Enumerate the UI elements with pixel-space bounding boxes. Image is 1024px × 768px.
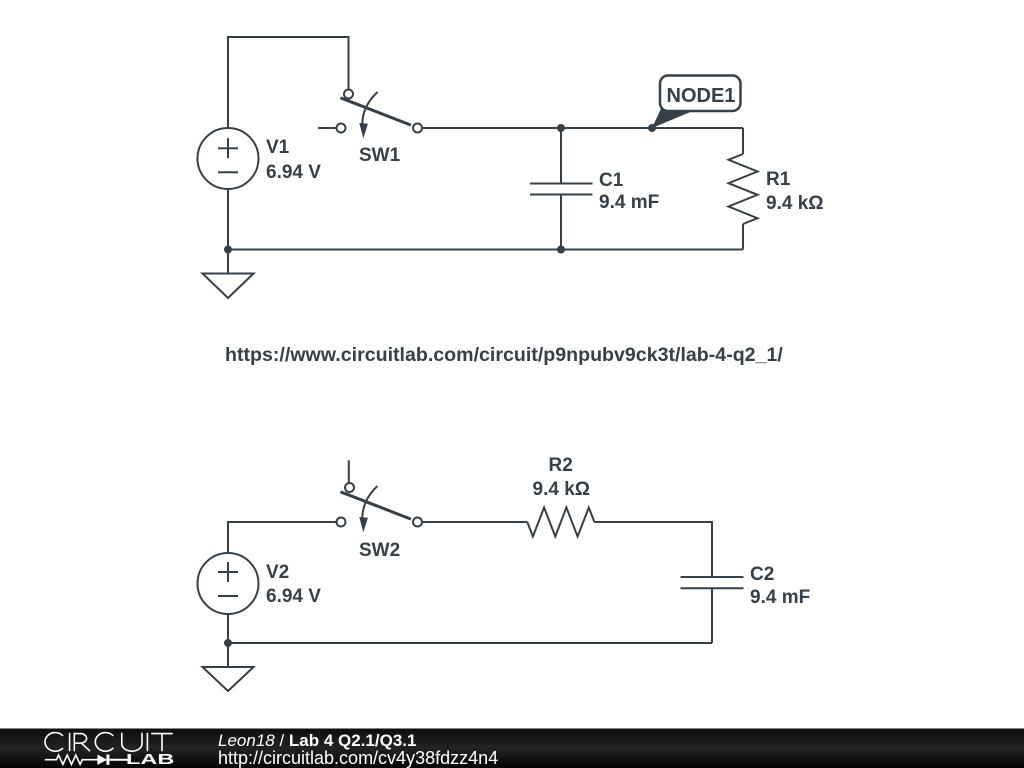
wire R2 to C2 <box>594 522 712 577</box>
node dot NODE1 <box>648 124 656 132</box>
label C2 <box>750 565 774 584</box>
label C1 <box>599 171 623 190</box>
NODE1 flag <box>652 76 741 129</box>
bottom rail bottom circuit <box>228 642 712 644</box>
wire SW1 to R1 top rail <box>422 127 743 129</box>
label V1 <box>266 138 289 157</box>
ground stub bottom <box>227 643 229 667</box>
wire SW2 to R2 <box>422 521 527 523</box>
value V1 6.94 V <box>266 163 321 182</box>
wire V1 bottom <box>227 189 229 250</box>
resistor R2 <box>527 508 594 537</box>
logo resistor-diode glyph <box>45 755 128 765</box>
ground stub top <box>227 250 229 274</box>
wire V2 bottom <box>227 614 229 643</box>
node dot C1 top <box>557 124 565 132</box>
node dot C1 bottom <box>557 246 565 254</box>
label R2 <box>549 456 573 475</box>
wire V1 top to SW1 <box>228 37 349 128</box>
value R2 9.4 kOhm <box>533 480 591 499</box>
value C2 9.4 mF <box>750 588 810 607</box>
ground symbol top <box>203 274 254 299</box>
junction dot V2 bottom <box>224 639 232 647</box>
switch SW2 <box>337 460 423 532</box>
node dot V1 bottom <box>224 246 232 254</box>
URL caption <box>225 346 783 366</box>
label V2 <box>266 563 289 582</box>
footer credit line <box>218 732 416 749</box>
value C1 9.4 mF <box>599 193 659 212</box>
voltage source V1 <box>198 128 259 189</box>
label SW1 <box>359 146 400 165</box>
label R1 <box>766 170 790 189</box>
footer url line <box>218 749 498 767</box>
value R1 9.4 kOhm <box>766 194 824 213</box>
capacitor C1 <box>530 128 593 250</box>
switch SW1 <box>318 90 422 139</box>
voltage source V2 <box>198 553 259 614</box>
label SW2 <box>359 541 400 560</box>
logo LAB text <box>126 752 174 767</box>
value V2 6.94 V <box>266 587 321 606</box>
wire V2 top to SW2 <box>228 522 337 553</box>
capacitor C2 <box>681 577 744 643</box>
bottom rail top circuit <box>228 249 743 251</box>
ground symbol bottom <box>203 667 254 691</box>
resistor R1 <box>729 128 758 250</box>
CircuitLab logo word CIRCUIT (drawn) <box>45 733 173 752</box>
label NODE1 <box>667 86 736 106</box>
junction dots top circuit <box>224 124 656 254</box>
